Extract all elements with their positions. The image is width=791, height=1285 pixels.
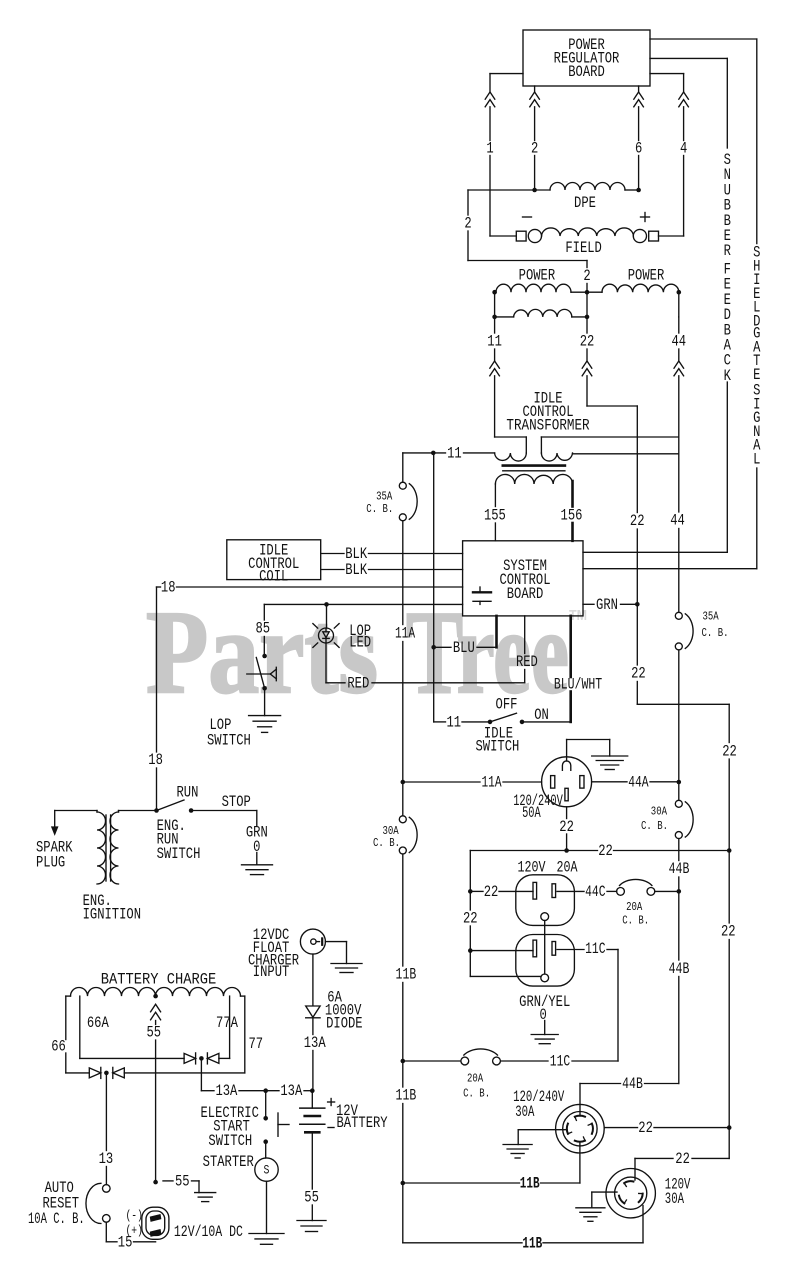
svg-text:10A C. B.: 10A C. B. — [28, 1210, 85, 1228]
svg-text:BLK: BLK — [345, 561, 367, 579]
svg-text:INPUT: INPUT — [253, 963, 289, 981]
svg-text:BLU: BLU — [453, 639, 475, 657]
svg-text:22: 22 — [484, 883, 499, 901]
svg-text:85: 85 — [256, 620, 271, 638]
svg-text:IGNITION: IGNITION — [83, 906, 141, 924]
svg-text:13A: 13A — [304, 1034, 326, 1052]
svg-text:PLUG: PLUG — [36, 854, 65, 872]
svg-text:66: 66 — [51, 1038, 66, 1056]
svg-text:BATTERY: BATTERY — [337, 1114, 388, 1132]
svg-text:C. B.: C. B. — [373, 836, 400, 850]
svg-text:44B: 44B — [622, 1075, 643, 1093]
svg-text:50A: 50A — [522, 804, 541, 822]
svg-text:BOARD: BOARD — [568, 63, 605, 81]
svg-text:20A: 20A — [557, 859, 578, 877]
svg-text:11A: 11A — [481, 774, 501, 792]
svg-text:SWITCH: SWITCH — [207, 731, 251, 749]
svg-text:Tree: Tree — [406, 586, 569, 718]
svg-text:11B: 11B — [522, 1234, 542, 1252]
svg-text:11B: 11B — [520, 1175, 540, 1193]
svg-text:STOP: STOP — [222, 793, 251, 811]
svg-text:POWER: POWER — [628, 266, 665, 284]
svg-text:35A: 35A — [703, 609, 720, 623]
svg-text:RUN: RUN — [177, 783, 199, 801]
svg-text:30A: 30A — [515, 1103, 534, 1121]
svg-text:1: 1 — [486, 140, 493, 158]
svg-text:13A: 13A — [280, 1082, 302, 1100]
svg-text:2: 2 — [464, 215, 471, 233]
svg-text:20A: 20A — [467, 1072, 484, 1086]
svg-text:Parts: Parts — [146, 586, 378, 718]
svg-text:44B: 44B — [669, 960, 690, 978]
svg-text:6: 6 — [635, 140, 642, 158]
svg-text:155: 155 — [484, 506, 506, 524]
svg-text:DPE: DPE — [574, 194, 596, 212]
svg-text:SWITCH: SWITCH — [157, 845, 201, 863]
svg-text:0: 0 — [540, 1006, 547, 1024]
svg-text:44A: 44A — [628, 773, 649, 791]
svg-text:2: 2 — [583, 267, 590, 285]
svg-text:POWER: POWER — [519, 266, 556, 284]
svg-text:C. B.: C. B. — [641, 819, 668, 833]
svg-text:TRANSFORMER: TRANSFORMER — [506, 417, 590, 435]
svg-text:RED: RED — [347, 674, 369, 692]
svg-text:120V: 120V — [518, 859, 546, 877]
svg-text:4: 4 — [680, 140, 687, 158]
svg-text:COIL: COIL — [259, 568, 288, 586]
svg-text:44C: 44C — [585, 883, 605, 901]
svg-text:22: 22 — [722, 742, 737, 760]
svg-text:BATTERY CHARGE: BATTERY CHARGE — [101, 971, 217, 989]
svg-text:SWITCH: SWITCH — [208, 1132, 252, 1150]
svg-text:55: 55 — [175, 1172, 190, 1190]
svg-text:ON: ON — [534, 706, 549, 724]
svg-text:BLU/WHT: BLU/WHT — [554, 676, 602, 694]
svg-text:OFF: OFF — [496, 695, 518, 713]
svg-text:RED: RED — [516, 653, 538, 671]
svg-text:77: 77 — [249, 1035, 264, 1053]
svg-text:66A: 66A — [87, 1014, 109, 1032]
svg-text:77A: 77A — [216, 1014, 238, 1032]
svg-text:44: 44 — [672, 333, 687, 351]
svg-text:C. B.: C. B. — [366, 502, 393, 516]
svg-text:2: 2 — [531, 140, 538, 158]
svg-text:22: 22 — [463, 910, 478, 928]
svg-text:C. B.: C. B. — [702, 626, 729, 640]
svg-text:30A: 30A — [665, 1190, 684, 1208]
svg-text:11C: 11C — [585, 940, 605, 958]
svg-text:44: 44 — [670, 512, 685, 530]
svg-text:11C: 11C — [550, 1053, 570, 1071]
svg-text:STARTER: STARTER — [203, 1153, 254, 1171]
svg-text:22: 22 — [630, 512, 645, 530]
svg-text:18: 18 — [161, 579, 176, 597]
svg-text:DIODE: DIODE — [326, 1014, 363, 1032]
svg-text:11A: 11A — [395, 625, 415, 643]
svg-text:(+): (+) — [126, 1223, 143, 1238]
svg-text:K: K — [724, 367, 732, 385]
svg-text:11: 11 — [447, 713, 462, 731]
svg-text:C. B.: C. B. — [463, 1087, 490, 1101]
svg-text:22: 22 — [721, 923, 736, 941]
svg-text:(-): (-) — [126, 1208, 143, 1223]
svg-text:22: 22 — [598, 842, 613, 860]
svg-text:C. B.: C. B. — [622, 914, 649, 928]
svg-text:LED: LED — [349, 633, 371, 651]
svg-text:18: 18 — [148, 751, 163, 769]
svg-text:30A: 30A — [651, 805, 668, 819]
svg-text:22: 22 — [638, 1119, 653, 1137]
svg-text:22: 22 — [580, 333, 595, 351]
svg-text:55: 55 — [147, 1024, 162, 1042]
svg-text:22: 22 — [631, 665, 646, 683]
svg-text:BOARD: BOARD — [507, 585, 544, 603]
svg-text:20A: 20A — [626, 900, 643, 914]
svg-text:22: 22 — [559, 818, 574, 836]
svg-text:13A: 13A — [215, 1082, 237, 1100]
svg-text:55: 55 — [304, 1188, 319, 1206]
svg-text:11B: 11B — [396, 1087, 417, 1105]
svg-text:GRN: GRN — [596, 596, 618, 614]
svg-text:L: L — [753, 451, 760, 469]
svg-text:22: 22 — [675, 1150, 690, 1168]
svg-text:S: S — [264, 1162, 270, 1177]
svg-text:11: 11 — [447, 444, 462, 462]
svg-text:SWITCH: SWITCH — [476, 737, 520, 755]
svg-text:12V/10A DC: 12V/10A DC — [174, 1223, 243, 1241]
svg-text:13: 13 — [99, 1150, 114, 1168]
svg-text:11B: 11B — [396, 966, 417, 984]
svg-text:44B: 44B — [669, 860, 690, 878]
svg-text:156: 156 — [561, 506, 583, 524]
svg-text:11: 11 — [487, 333, 502, 351]
svg-text:FIELD: FIELD — [565, 239, 602, 257]
svg-text:R: R — [724, 242, 732, 260]
